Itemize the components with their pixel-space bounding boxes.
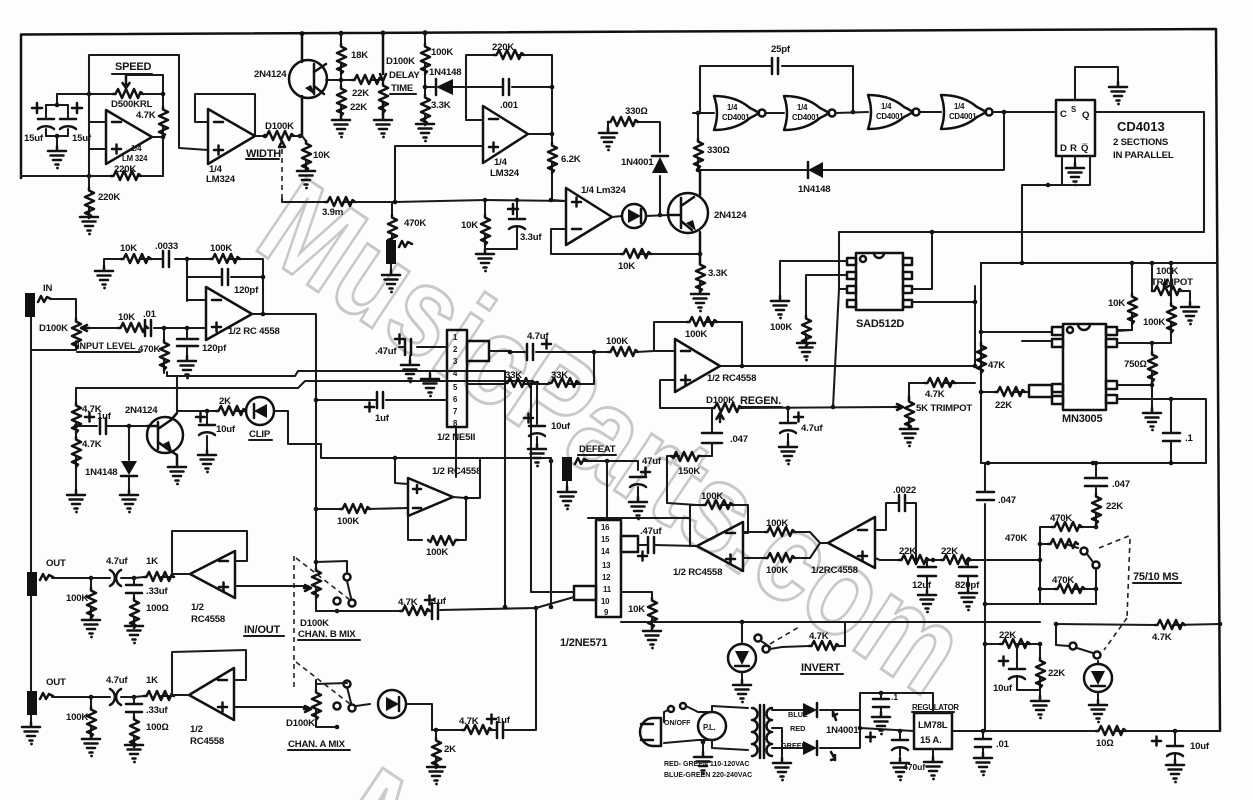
potentiometer D100K chan A (312, 690, 321, 720)
svg-text:100Ω: 100Ω (146, 722, 169, 733)
svg-text:14: 14 (601, 547, 610, 556)
svg-text:2N4124: 2N4124 (254, 69, 287, 80)
wire output to 6.2K (528, 134, 565, 201)
wire jack to pot (31, 299, 76, 350)
capacitor 4.7uf (110, 689, 121, 705)
wire + input from bottom rail (89, 94, 106, 176)
capacitor .47uf return (638, 544, 648, 546)
svg-text:1/4: 1/4 (881, 102, 892, 111)
secondary wires (772, 710, 860, 758)
capacitor 820pf (967, 560, 969, 588)
wire output (612, 216, 622, 217)
svg-text:1N4148: 1N4148 (798, 184, 831, 195)
diode 1N4148 (425, 86, 466, 88)
wire g1-g2 (766, 112, 784, 114)
wire pin3 right to top (912, 232, 932, 289)
op-amp U1c 1/4 LM324 (483, 106, 528, 163)
wire inverting input (89, 121, 106, 123)
resistor 22K mid (985, 643, 1040, 645)
resistor 3.3K to ground (696, 262, 705, 292)
wire pot to emitter node (292, 135, 302, 137)
capacitor 1uf input (316, 399, 447, 401)
svg-text:RC4558: RC4558 (191, 614, 226, 625)
svg-text:6.2K: 6.2K (561, 154, 581, 165)
svg-text:1uf: 1uf (375, 413, 390, 424)
capacitor 25pf loop (700, 66, 853, 113)
ground regulator (932, 749, 934, 757)
wire + chain out (875, 558, 899, 560)
jack IN (25, 293, 35, 317)
svg-text:CHAN. A MIX: CHAN. A MIX (288, 739, 346, 750)
svg-text:1K: 1K (146, 675, 158, 686)
wire g3-g4 (920, 111, 941, 113)
regulator LM78L15 (914, 713, 952, 749)
svg-text:D100K: D100K (39, 323, 68, 334)
ground below jack (390, 264, 392, 270)
capacitor 10uf to ground (536, 383, 538, 444)
svg-text:2K: 2K (219, 396, 231, 407)
resistor 100K (90, 578, 92, 615)
resistor 100K from rail (424, 33, 426, 95)
ground 220K (80, 212, 98, 235)
svg-text:ON/OFF: ON/OFF (664, 720, 691, 727)
svg-text:47K: 47K (988, 360, 1005, 371)
op-amp U10a 1/2 RC4558 (left-facing) (697, 522, 743, 571)
op-amp U11a 1/2 RC4558 (left-facing) (190, 551, 235, 598)
svg-text:REGEN.: REGEN. (740, 395, 781, 407)
svg-text:SPEED: SPEED (115, 61, 152, 73)
svg-text:INVERT: INVERT (801, 662, 841, 674)
svg-text:1/4: 1/4 (954, 102, 965, 111)
IC U8 MN3005 (1063, 324, 1106, 410)
wire bus risers to pins (531, 591, 574, 593)
svg-text:1N4001: 1N4001 (826, 725, 859, 736)
resistor 22K horizontal (352, 75, 382, 84)
svg-text:7: 7 (453, 407, 457, 416)
svg-text:75/10 MS: 75/10 MS (1133, 571, 1178, 583)
svg-text:4.7uf: 4.7uf (801, 423, 823, 434)
wire D and Qbar loop (1022, 156, 1090, 263)
svg-text:100K: 100K (770, 322, 792, 333)
svg-text:CD4001: CD4001 (792, 113, 820, 122)
capacitor .047 left riser (984, 463, 986, 731)
resistor 3.3K (421, 95, 430, 125)
svg-text:1/2: 1/2 (191, 602, 204, 613)
NOR gate 3 1/4 CD4001 (868, 95, 913, 129)
svg-text:100K: 100K (766, 565, 788, 576)
watermark partial second tile (315, 742, 473, 800)
wire emitter ground (169, 450, 177, 462)
svg-text:100K: 100K (1143, 317, 1165, 328)
svg-text:15: 15 (601, 535, 610, 544)
svg-text:10K: 10K (313, 150, 330, 161)
wire LED out (274, 411, 551, 458)
IC U3 CD4013 (1056, 100, 1095, 156)
svg-text:4.7K: 4.7K (136, 110, 156, 121)
capacitor 10uf feed (1017, 644, 1040, 690)
svg-text:DELAY: DELAY (389, 70, 420, 81)
svg-text:1N4001: 1N4001 (621, 157, 654, 168)
resistor 470K (391, 202, 393, 240)
svg-text:100Ω: 100Ω (146, 603, 169, 614)
resistor 33K left (505, 378, 535, 387)
svg-text:22K: 22K (995, 400, 1012, 411)
svg-text:4.7K: 4.7K (1152, 632, 1172, 643)
capacitor .001 (466, 86, 552, 88)
svg-text:5K TRIMPOT: 5K TRIMPOT (916, 403, 972, 414)
ground caps (48, 146, 66, 169)
resistor 4.7K invert (770, 646, 809, 649)
svg-text:750Ω: 750Ω (1124, 359, 1147, 370)
svg-text:D100K: D100K (386, 56, 415, 67)
svg-text:1/2 RC4558: 1/2 RC4558 (707, 373, 757, 384)
svg-text:D100K: D100K (265, 121, 294, 132)
wire regen row right (740, 407, 895, 408)
svg-text:CD4001: CD4001 (876, 112, 904, 121)
svg-text:.47uf: .47uf (640, 526, 662, 537)
wire clock in pin (1022, 340, 1052, 342)
svg-text:MN3005: MN3005 (1062, 413, 1102, 425)
wire Q output to right rail (1095, 112, 1204, 232)
wire rail bottom (985, 603, 1096, 605)
svg-text:100K: 100K (431, 47, 453, 58)
wire + input to pot (234, 706, 305, 708)
resistor 330 ohm pullup (697, 113, 699, 170)
wire 4.7K row (1056, 624, 1220, 625)
svg-text:1/2 RC4558: 1/2 RC4558 (673, 567, 723, 578)
svg-text:CD4013: CD4013 (1117, 119, 1165, 134)
resistor 10K to ground (484, 200, 486, 249)
resistor 100K to op-amp (608, 347, 638, 356)
capacitor 10uf (1174, 731, 1176, 760)
wire g4 output (993, 111, 1056, 113)
resistor 750 ohm (1151, 343, 1153, 352)
svg-text:220K: 220K (114, 164, 136, 175)
svg-text:2N4124: 2N4124 (714, 210, 747, 221)
wire cap to base (106, 425, 147, 427)
wire top rail to ground (104, 259, 187, 266)
wire feedback loop (195, 94, 255, 136)
capacitor .47uf (417, 346, 447, 348)
svg-text:2K: 2K (444, 744, 456, 755)
svg-text:10K: 10K (618, 261, 635, 272)
svg-text:.0033: .0033 (155, 241, 178, 252)
svg-text:2N4124: 2N4124 (125, 405, 158, 416)
svg-text:2 SECTIONS: 2 SECTIONS (1113, 137, 1169, 148)
svg-text:15uf: 15uf (24, 133, 44, 144)
svg-text:1N4148: 1N4148 (429, 67, 462, 78)
svg-text:330Ω: 330Ω (707, 145, 730, 156)
IC U5 1/2 NE511 (447, 330, 467, 427)
resistor 4.7K trim (909, 383, 975, 396)
ground 10K (305, 160, 307, 166)
trimpot 5K (908, 396, 911, 399)
svg-text:.33uf: .33uf (146, 705, 168, 716)
node dots on supply rail (300, 31, 305, 36)
resistor 100K link bottom (743, 557, 765, 559)
capacitor 1uf mix (428, 608, 536, 611)
svg-text:10K: 10K (461, 220, 478, 231)
resistor 100K top (187, 259, 263, 314)
resistor 4.7K lower (75, 426, 77, 490)
svg-text:R: R (1070, 143, 1077, 154)
svg-text:10uf: 10uf (1190, 741, 1210, 752)
svg-text:1uf: 1uf (496, 715, 511, 726)
svg-text:4.7uf: 4.7uf (106, 556, 128, 567)
capacitor 4.7uf (527, 344, 533, 360)
svg-text:4.7K: 4.7K (925, 389, 945, 400)
wire bus A (167, 371, 505, 607)
svg-text:22K: 22K (899, 546, 916, 557)
diode 1N4148 to ground (128, 426, 130, 490)
svg-text:33K: 33K (551, 370, 568, 381)
svg-text:TIME: TIME (391, 83, 414, 94)
svg-text:CLIP: CLIP (249, 429, 271, 440)
svg-text:.0022: .0022 (893, 485, 916, 496)
svg-text:330Ω: 330Ω (625, 106, 648, 117)
resistor 1K (144, 572, 174, 581)
svg-text:.1: .1 (1185, 433, 1193, 444)
wire output (252, 314, 316, 509)
resistor 6.2K (548, 143, 557, 173)
svg-text:470K: 470K (1050, 513, 1072, 524)
svg-text:100K: 100K (210, 243, 232, 254)
IC pins right (903, 258, 912, 265)
svg-text:.01: .01 (143, 309, 157, 320)
wire 18K from rail (340, 33, 342, 115)
wire gate input (693, 112, 714, 114)
svg-text:1/2: 1/2 (190, 724, 203, 735)
svg-text:22K: 22K (1048, 668, 1065, 679)
svg-text:1/4: 1/4 (131, 144, 142, 153)
switch range (1081, 548, 1088, 555)
svg-text:Q: Q (1082, 110, 1090, 121)
wire output node (152, 94, 163, 176)
resistor 470K a (1040, 527, 1096, 604)
pins tab right (621, 536, 638, 552)
NOR gate 1/4 CD4001 (714, 96, 759, 130)
node (76, 422, 97, 426)
svg-text:100K: 100K (426, 547, 448, 558)
svg-text:D100K: D100K (300, 618, 329, 629)
IC pins right (1106, 327, 1117, 335)
wire output riser (466, 458, 551, 607)
resistor 100K feedback (408, 497, 466, 540)
potentiometer D100K input level (72, 319, 81, 349)
switch chan B (344, 574, 351, 581)
resistor 100K bias (806, 275, 847, 338)
resistor 18K (337, 44, 346, 74)
svg-text:LM78L: LM78L (918, 720, 948, 731)
resistor 10 ohm rail (1096, 726, 1126, 735)
svg-text:10: 10 (601, 597, 610, 606)
svg-text:3.3K: 3.3K (708, 268, 728, 279)
LED invert (741, 622, 743, 644)
svg-text:22K: 22K (1106, 501, 1123, 512)
svg-text:RC4558: RC4558 (190, 736, 225, 747)
IC pins left (1052, 327, 1063, 335)
svg-text:1uf: 1uf (97, 411, 112, 422)
wire sleeve common (30, 350, 32, 722)
potentiometer D100K (WIDTH) (255, 135, 265, 137)
svg-text:RED- GREEN 110-120VAC: RED- GREEN 110-120VAC (664, 761, 749, 768)
svg-text:LM324: LM324 (206, 174, 236, 185)
IC pins left (847, 258, 856, 265)
resistor 330 ohm to ground (608, 122, 660, 128)
svg-text:BLUE-GREEN 220-240VAC: BLUE-GREEN 220-240VAC (664, 772, 752, 779)
capacitor 4.7uf regen to ground (787, 408, 789, 442)
wire box top rail (833, 232, 1204, 407)
ground 22K (332, 115, 350, 138)
svg-text:LM324: LM324 (490, 168, 520, 179)
resistor 150K (667, 456, 712, 505)
switch chan A (344, 681, 351, 688)
capacitor .01 (982, 731, 984, 753)
capacitor 47uf to ground (630, 477, 646, 487)
svg-text:1uf: 1uf (432, 596, 447, 607)
svg-text:100K: 100K (66, 593, 88, 604)
svg-text:1/4: 1/4 (494, 157, 508, 168)
wire LFO bottom rail (21, 175, 163, 177)
resistor 2K to ground (434, 728, 439, 733)
svg-text:D500KRL: D500KRL (111, 99, 153, 110)
svg-text:REGULATOR: REGULATOR (912, 703, 959, 712)
wire LFO out to width stage (89, 55, 208, 150)
svg-text:IN: IN (43, 283, 52, 294)
resistor 22K a (899, 555, 929, 564)
svg-text:.001: .001 (500, 100, 519, 111)
svg-text:10K: 10K (120, 243, 137, 254)
wire pin15 top link (588, 518, 690, 522)
wire defeat row (583, 461, 638, 470)
svg-text:470K: 470K (1052, 575, 1074, 586)
op-amp U1a 1/4 LM324 (106, 110, 152, 164)
svg-text:IN PARALLEL: IN PARALLEL (1113, 150, 1174, 161)
capacitor 120pf feedback (187, 259, 263, 301)
svg-text:120pf: 120pf (234, 285, 259, 296)
svg-text:150K: 150K (678, 466, 700, 477)
resistor 100K feedback top (690, 505, 748, 546)
wire feedback loop (172, 531, 247, 574)
svg-text:D100K: D100K (706, 395, 735, 406)
svg-text:1/4: 1/4 (797, 103, 808, 112)
pilot light P.L. (664, 706, 698, 743)
wire + input to 3.9M node (395, 146, 485, 202)
svg-text:18K: 18K (351, 50, 368, 61)
op-amp U4a 1/2 RC4558 (206, 287, 252, 340)
switch on/off (664, 710, 668, 722)
resistor 220K (494, 50, 524, 59)
wire rectifier out (860, 693, 933, 731)
wire collector to bus (167, 372, 177, 411)
jack DEFEAT (562, 457, 572, 481)
svg-text:CD4001: CD4001 (722, 113, 750, 122)
ground PL (701, 740, 706, 745)
pins 2-3 tab (467, 341, 489, 361)
svg-text:OUT: OUT (46, 677, 66, 688)
svg-text:4.7K: 4.7K (459, 716, 479, 727)
resistor 22K (981, 391, 1029, 393)
svg-text:.047: .047 (1112, 479, 1130, 490)
LED CLIP (246, 397, 274, 425)
wire + input to regen row (660, 380, 712, 408)
svg-text:100K: 100K (766, 518, 788, 529)
wire to MN3005 pin row (981, 331, 1052, 333)
svg-text:10Ω: 10Ω (1096, 738, 1113, 749)
diode 1N4148 feedback (808, 162, 823, 178)
wire + input node (187, 327, 206, 329)
resistor 4.7K upper (75, 388, 77, 403)
ground delay pot (374, 115, 392, 138)
resistor 3.9M (300, 201, 395, 203)
wire caps bottom node (46, 136, 68, 146)
wire bias bottom rail (981, 462, 1206, 464)
potentiometer D100K chan B (312, 568, 321, 598)
potentiometer D100K REGEN (712, 403, 742, 412)
svg-text:Q̅: Q̅ (1081, 143, 1089, 154)
svg-text:10K: 10K (628, 604, 645, 615)
resistor 220K feedback (111, 171, 141, 180)
capacitor .01 (145, 327, 187, 329)
op-amp U11b 1/2 RC4558 (left-facing) (189, 668, 234, 720)
wire collector up (699, 170, 702, 195)
resistor 33K right (549, 378, 579, 387)
watermark MusicParts.com (235, 151, 989, 722)
wire out row (52, 577, 172, 578)
svg-text:1/4 Lm324: 1/4 Lm324 (581, 185, 626, 196)
wire 2K row (177, 410, 245, 412)
svg-text:4.7uf: 4.7uf (106, 675, 128, 686)
capacitor 4.7uf (110, 570, 121, 586)
resistor 220K to ground (88, 176, 90, 212)
resistor 100K link top (743, 531, 765, 533)
svg-text:13: 13 (602, 561, 611, 570)
wire bus B (76, 381, 531, 592)
wire g2-g3 (836, 112, 868, 113)
resistor 470K to bus (163, 328, 165, 373)
svg-text:100K: 100K (701, 491, 723, 502)
svg-text:RED: RED (790, 724, 805, 733)
svg-text:10uf: 10uf (216, 424, 236, 435)
wire V rail right (981, 262, 1217, 264)
svg-text:CHAN. B MIX: CHAN. B MIX (298, 629, 356, 640)
AC plug (640, 718, 661, 746)
svg-text:10K: 10K (1108, 298, 1125, 309)
svg-text:10uf: 10uf (551, 421, 571, 432)
svg-text:LM 324: LM 324 (122, 154, 148, 163)
svg-text:.01: .01 (996, 739, 1010, 750)
svg-text:1/2 RC4558: 1/2 RC4558 (432, 466, 482, 477)
wire speed pot rail (57, 93, 163, 95)
resistor 2K (216, 406, 246, 415)
pins tab MN3005 lower-left (1029, 385, 1052, 397)
svg-text:4.7K: 4.7K (809, 631, 829, 642)
potentiometer D500KRL (SPEED) (113, 89, 143, 98)
svg-text:C: C (1060, 109, 1067, 120)
transformer T1 (752, 708, 758, 756)
capacitor .047 right (1094, 461, 1099, 466)
svg-text:.1: .1 (891, 692, 898, 702)
svg-text:470K: 470K (138, 344, 160, 355)
wire NE511 pin8 drop (455, 427, 457, 477)
jack defeat footswitch (386, 240, 396, 264)
wire feedback loop (172, 650, 246, 695)
potentiometer D100K delay time (380, 33, 386, 115)
svg-text:100K: 100K (1156, 266, 1178, 277)
resistor 22K drop2 (1039, 644, 1041, 696)
wire emitter down (699, 232, 702, 262)
svg-text:10K: 10K (118, 312, 135, 323)
